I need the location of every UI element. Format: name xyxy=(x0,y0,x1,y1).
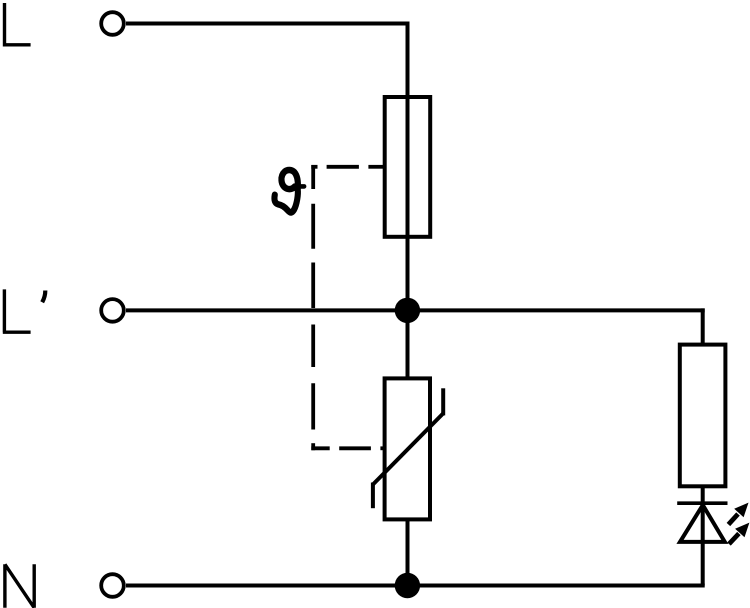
fuse F1 xyxy=(385,97,431,237)
varistor diagonal xyxy=(373,413,443,484)
varistor diagonal tail bottom xyxy=(371,483,375,509)
wire L' horizontal xyxy=(126,308,705,312)
wire middle branch upper xyxy=(406,310,410,378)
wire right branch through LED xyxy=(701,486,705,585)
label N xyxy=(5,564,34,608)
LED arrow 1 xyxy=(728,503,748,525)
junction node N xyxy=(395,573,420,598)
wire N horizontal xyxy=(126,584,705,588)
varistor RU xyxy=(385,378,430,519)
LED triangle xyxy=(680,505,725,542)
dashed thermal link horizontal top xyxy=(311,165,384,169)
dashed thermal link horizontal bottom xyxy=(311,446,384,450)
wire middle branch lower xyxy=(406,519,410,585)
terminal L' xyxy=(101,299,124,322)
wire L horizontal xyxy=(126,22,410,26)
terminal N xyxy=(101,574,124,597)
varistor diagonal tail top xyxy=(441,388,445,415)
terminal L xyxy=(101,12,124,35)
resistor R1 xyxy=(680,345,726,487)
LED cathode bar xyxy=(677,501,727,505)
label L xyxy=(3,3,31,45)
junction node L' xyxy=(395,298,420,323)
wire right branch upper xyxy=(701,308,705,344)
LED arrow 2 xyxy=(729,523,749,544)
wire L vertical through fuse xyxy=(406,22,410,311)
dashed thermal link vertical xyxy=(311,165,315,450)
label theta xyxy=(274,170,304,213)
label L' xyxy=(3,289,46,332)
